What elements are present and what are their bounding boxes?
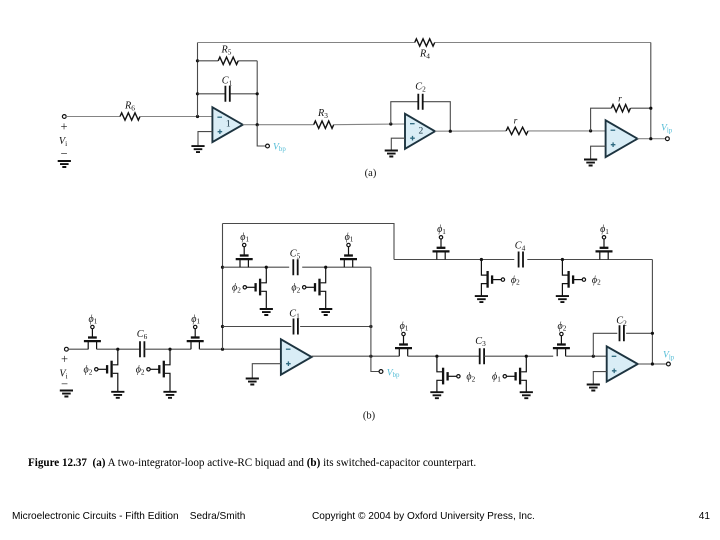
C5 damping rail bbox=[223, 266, 371, 268]
svg-text:2: 2 bbox=[419, 126, 424, 136]
node C5 rail right shunt bbox=[324, 266, 327, 269]
node Vlp (b) bbox=[651, 362, 654, 365]
node C1 right bbox=[369, 325, 372, 328]
svg-text:+: + bbox=[61, 352, 68, 366]
svg-text:ϕ1: ϕ1 bbox=[400, 321, 409, 333]
wire op-amp 1b output bbox=[312, 355, 400, 357]
svg-text:ϕ2: ϕ2 bbox=[84, 365, 93, 377]
svg-text:ϕ2: ϕ2 bbox=[466, 372, 475, 384]
svg-text:Vbp: Vbp bbox=[387, 367, 400, 379]
capacitor C3 bbox=[480, 348, 484, 364]
resistor R4 bbox=[415, 39, 435, 46]
wire R3 to op-amp 2 bbox=[334, 123, 405, 126]
wire switch 2 to op-amp 1b bbox=[199, 348, 281, 350]
svg-text:(b): (b) bbox=[363, 411, 376, 422]
svg-text:R3: R3 bbox=[317, 108, 328, 120]
capacitor C1 (b) integrating bbox=[223, 326, 371, 328]
switch phi2 shunt (output row) bbox=[437, 356, 476, 392]
wire op-amp 1 + input to ground bbox=[198, 132, 212, 146]
resistor r (series) bbox=[506, 127, 528, 134]
svg-text:C1: C1 bbox=[222, 76, 233, 88]
node C2 right on vertical bbox=[651, 332, 654, 335]
svg-text:+: + bbox=[60, 120, 67, 134]
svg-text:ϕ2: ϕ2 bbox=[592, 275, 601, 287]
wire R6 to op-amp 1 inverting input bbox=[140, 116, 212, 118]
svg-text:C1: C1 bbox=[289, 309, 300, 321]
svg-text:Vbp: Vbp bbox=[273, 141, 286, 153]
terminal Vlp (a) bbox=[666, 137, 670, 141]
svg-text:ϕ1: ϕ1 bbox=[89, 314, 98, 326]
op-amp 3 bbox=[606, 120, 638, 157]
node op-amp 3 output bbox=[649, 137, 652, 140]
svg-text:ϕ1: ϕ1 bbox=[240, 232, 249, 244]
caption figure 12.37 bbox=[28, 457, 476, 469]
node shunt 2 (b) bbox=[168, 348, 171, 351]
wire op-amp 2 output to r bbox=[435, 130, 506, 132]
node C4 rail right shunt bbox=[561, 258, 564, 261]
node op-amp 1b output bbox=[369, 355, 372, 358]
terminal Vlp (b) bbox=[667, 362, 671, 366]
wire vertical C5 rail end to output node bbox=[370, 267, 372, 356]
svg-text:ϕ1: ϕ1 bbox=[600, 224, 609, 236]
capacitor C6 bbox=[140, 341, 144, 357]
node ladder C5 rail bbox=[221, 266, 224, 269]
capacitor C2 (b) feedback loop bbox=[593, 333, 652, 356]
wire C4 rail bbox=[394, 259, 652, 261]
wire r to op-amp 3 inverting input bbox=[528, 130, 606, 132]
wire op-amp 3 output bbox=[638, 138, 667, 140]
capacitor C1 (a) feedback bbox=[198, 93, 258, 95]
svg-text:ϕ1: ϕ1 bbox=[345, 232, 354, 244]
svg-text:C2: C2 bbox=[415, 82, 426, 94]
switch phi2 shunt (C5 rail right) bbox=[291, 267, 325, 309]
svg-text:Vlp: Vlp bbox=[661, 123, 673, 135]
svg-text:ϕ2: ϕ2 bbox=[136, 365, 145, 377]
ground op-amp 3 bbox=[584, 160, 597, 166]
node at op-amp 1 input bbox=[196, 115, 199, 118]
capacitor C5 bbox=[289, 259, 302, 276]
node shunt 1 (b) bbox=[116, 348, 119, 351]
wire C6 to switch 2 bbox=[144, 348, 191, 350]
switch phi1 series (C5 rail right) bbox=[340, 232, 357, 267]
svg-text:ϕ2: ϕ2 bbox=[558, 321, 567, 333]
footer left bbox=[12, 511, 245, 522]
ground op-amp 2 bbox=[385, 151, 398, 157]
node op-amp 3 input bbox=[589, 129, 592, 132]
wire to Vbp terminal (b) bbox=[371, 356, 379, 371]
switch phi2 series (b output row) bbox=[553, 321, 570, 356]
footer center bbox=[312, 511, 535, 522]
svg-text:C4: C4 bbox=[515, 241, 526, 253]
op-amp 2 bbox=[405, 114, 435, 149]
svg-text:r: r bbox=[514, 117, 518, 127]
node op-amp 2 output bbox=[449, 130, 452, 133]
node ladder C1 line bbox=[221, 325, 224, 328]
svg-text:ϕ1: ϕ1 bbox=[492, 372, 501, 384]
wire right vertical of R5/C1 feedback bbox=[256, 61, 258, 125]
svg-text:1: 1 bbox=[226, 120, 231, 130]
node r feedback junction bbox=[649, 107, 652, 110]
resistor R5 feedback bbox=[198, 60, 258, 62]
node C4 rail left shunt bbox=[480, 258, 483, 261]
wire switch to op-amp 2b bbox=[566, 355, 607, 357]
switch phi2 shunt (C4 rail left) bbox=[481, 260, 520, 297]
input terminal Vi (b) bbox=[65, 347, 69, 351]
svg-text:ϕ2: ϕ2 bbox=[232, 283, 241, 295]
svg-text:C5: C5 bbox=[290, 249, 301, 261]
switch phi1 shunt (output row) bbox=[492, 356, 526, 392]
svg-text:−: − bbox=[60, 147, 67, 161]
wire vertical ladder from top rail to input node bbox=[222, 224, 224, 350]
node junction to feedback ladder bbox=[221, 348, 224, 351]
svg-text:R6: R6 bbox=[124, 101, 135, 113]
ground op-amp 1 bbox=[191, 146, 204, 152]
svg-text:ϕ1: ϕ1 bbox=[437, 224, 446, 236]
wire op-amp 2 + input to ground bbox=[391, 138, 405, 150]
wire op-amp 3 + input to ground bbox=[591, 146, 606, 159]
op-amp 2 (b) bbox=[607, 346, 638, 381]
resistor R6 bbox=[120, 113, 140, 120]
node C1 left bbox=[196, 92, 199, 95]
wire op-amp 1b + input to ground bbox=[252, 364, 281, 379]
switch phi1 series (C4 rail left) bbox=[433, 224, 450, 259]
footer right page number bbox=[699, 511, 710, 522]
wire right vertical from C4 rail to Vlp node bbox=[651, 260, 653, 365]
switch phi1 series (b output row) bbox=[395, 321, 412, 356]
top rail (b) to C4 row bbox=[223, 224, 395, 260]
resistor r feedback of op-amp 3 bbox=[591, 108, 651, 131]
node op-amp 2 inverting input bbox=[389, 122, 392, 125]
wire right vertical from top rail to output node bbox=[650, 43, 652, 139]
switch phi2 shunt at node 1 bbox=[84, 349, 118, 392]
wire switch1 to node bbox=[97, 348, 140, 350]
svg-text:C2: C2 bbox=[616, 316, 627, 328]
wire op-amp 2b output bbox=[638, 363, 667, 365]
switch phi1 series (C4 rail right) bbox=[596, 224, 613, 259]
switch phi2 shunt (C4 rail right) bbox=[562, 260, 601, 297]
switch phi1 series (C5 rail left) bbox=[236, 232, 253, 267]
node op-amp 1 output bbox=[256, 123, 259, 126]
switch phi1 series (b input 1) bbox=[84, 314, 101, 349]
wire vertical input node to R5/C1/top rail bbox=[197, 43, 199, 117]
svg-text:R5: R5 bbox=[221, 45, 232, 57]
switch phi2 shunt (C5 rail left) bbox=[232, 267, 266, 309]
capacitor C2 (a) feedback loop bbox=[391, 102, 451, 132]
ground below Vi (b) bbox=[60, 391, 73, 397]
input terminal Vi (a) bbox=[62, 115, 66, 119]
wire op-amp 2b + input to ground bbox=[593, 372, 606, 385]
node shunt (output row left) bbox=[435, 355, 438, 358]
switch phi1 series (b input 2) bbox=[187, 314, 204, 349]
wire switch to C3 bbox=[408, 355, 480, 357]
wire op-amp 1 output bbox=[243, 124, 314, 126]
resistor R3 bbox=[314, 121, 334, 128]
capacitor C4 bbox=[514, 251, 527, 268]
op-amp 1 (b) bbox=[281, 339, 312, 374]
terminal Vbp (a) bbox=[266, 144, 270, 148]
node C5 rail left shunt bbox=[265, 266, 268, 269]
svg-text:ϕ2: ϕ2 bbox=[291, 283, 300, 295]
svg-text:ϕ2: ϕ2 bbox=[511, 275, 520, 287]
node C1 right bbox=[256, 92, 259, 95]
svg-text:ϕ1: ϕ1 bbox=[191, 314, 200, 326]
switch phi2 shunt at node 2 bbox=[136, 349, 170, 392]
wire C3 to switch phi2 series bbox=[484, 355, 553, 357]
wire input to R6 bbox=[66, 116, 120, 118]
top rail with R4 from op-amp1 input to right vertical bbox=[198, 42, 651, 44]
ground op-amp 1b bbox=[246, 379, 259, 385]
svg-text:C6: C6 bbox=[137, 329, 148, 341]
svg-text:(a): (a) bbox=[365, 168, 377, 179]
svg-text:Vlp: Vlp bbox=[663, 350, 675, 362]
svg-text:−: − bbox=[61, 377, 68, 391]
node op-amp 2b inverting input bbox=[592, 355, 595, 358]
terminal Vbp (b) bbox=[379, 370, 383, 374]
svg-text:R4: R4 bbox=[419, 49, 430, 61]
ground below Vi (a) bbox=[58, 161, 71, 167]
wire input to switch 1 bbox=[68, 348, 88, 350]
node shunt phi1 (output row right) bbox=[525, 355, 528, 358]
node R5 left bbox=[196, 59, 199, 62]
svg-text:C3: C3 bbox=[475, 336, 486, 348]
ground op-amp 2b bbox=[587, 385, 600, 391]
wire to Vbp terminal bbox=[257, 125, 266, 146]
op-amp 1 bbox=[212, 107, 242, 142]
svg-text:r: r bbox=[618, 95, 622, 105]
